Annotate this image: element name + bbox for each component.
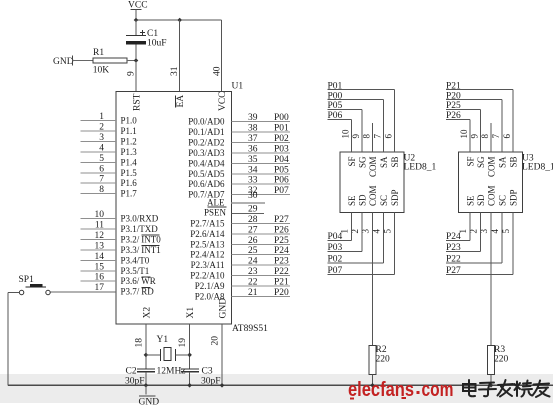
U3 pin 8 number	[480, 134, 490, 139]
svg-text:33: 33	[248, 176, 258, 186]
svg-text:INT0: INT0	[141, 234, 161, 244]
pin 18 number	[134, 338, 144, 348]
svg-text:SD: SD	[476, 194, 486, 206]
pin name RST	[133, 93, 143, 111]
U3 pin 10 number	[459, 129, 469, 139]
switch SP1	[19, 275, 51, 295]
svg-text:WR: WR	[141, 276, 156, 286]
U3 pin name SF	[466, 157, 476, 167]
wire net P20 to U3	[446, 91, 502, 152]
pin 13 P3.3/INT1	[81, 241, 161, 255]
wire net P26 to U3	[446, 111, 470, 152]
resistor R3 220	[488, 345, 509, 385]
svg-text:P3.6/: P3.6/	[121, 276, 140, 286]
svg-text:GND: GND	[219, 298, 229, 319]
junction X1-Y1	[187, 353, 192, 358]
svg-text:10: 10	[95, 210, 105, 220]
pin 22 P2.1/A9 net P21	[195, 277, 290, 291]
svg-text:P1.1: P1.1	[121, 126, 137, 136]
IC U1 AT89S51 body	[116, 82, 268, 335]
wire net P02 to U2	[328, 213, 384, 265]
pin 15 P3.5/T1	[81, 262, 150, 276]
wire net P07 to U2	[328, 213, 395, 277]
svg-text:P2.3/A11: P2.3/A11	[191, 260, 225, 270]
svg-text:14: 14	[95, 252, 105, 262]
svg-text:P0.5/AD5: P0.5/AD5	[188, 169, 225, 179]
svg-text:6: 6	[502, 134, 512, 139]
svg-text:12: 12	[95, 231, 105, 241]
svg-text:19: 19	[178, 338, 188, 348]
resistor R1 10K	[72, 48, 136, 76]
U2 pin name SA	[379, 156, 389, 168]
svg-text:P1.2: P1.2	[121, 136, 137, 146]
svg-text:29: 29	[248, 205, 258, 215]
svg-text:3: 3	[99, 133, 104, 143]
svg-text:P25: P25	[274, 236, 289, 246]
svg-text:AT89S51: AT89S51	[232, 324, 268, 334]
U3 pin name SDP	[509, 189, 519, 206]
wire net P01 to U2	[328, 81, 395, 152]
svg-text:9: 9	[470, 134, 480, 139]
svg-text:RST: RST	[133, 93, 143, 111]
display U3 LED8_1 body	[459, 152, 553, 213]
U3 COM top stub	[490, 123, 492, 152]
U3 pin name SC	[498, 195, 508, 206]
U2 pin 4 number	[372, 229, 382, 234]
pin name GND	[219, 298, 229, 319]
svg-text:SA: SA	[379, 156, 389, 168]
svg-text:COM: COM	[487, 185, 497, 206]
U2 pin 5 number	[383, 229, 393, 234]
svg-text:38: 38	[248, 124, 258, 134]
svg-text:5: 5	[99, 154, 104, 164]
svg-text:P26: P26	[274, 225, 289, 235]
svg-text:X2: X2	[142, 307, 152, 319]
svg-text:P2.6/A14: P2.6/A14	[190, 229, 225, 239]
svg-text:P23: P23	[274, 257, 289, 267]
watermark elecfans.com	[348, 378, 454, 401]
pin 8 P1.7	[81, 185, 138, 199]
pin 33 P0.6/AD6 net P06	[188, 176, 290, 190]
junction VCC-EA	[177, 18, 182, 23]
U2 pin 1 number	[340, 229, 350, 234]
svg-text:P2.2/A10: P2.2/A10	[190, 271, 225, 281]
ground GND bottom	[139, 385, 160, 407]
pin 19 number	[178, 338, 188, 348]
pin 20 number	[211, 336, 221, 346]
pin name X1	[186, 307, 196, 319]
svg-text:7: 7	[373, 134, 383, 139]
svg-text:ALE: ALE	[207, 198, 225, 208]
svg-text:P01: P01	[274, 124, 289, 134]
svg-text:8: 8	[99, 185, 104, 195]
U2 pin name SG	[358, 156, 368, 168]
wire bottom ground rail	[8, 384, 553, 386]
svg-text:26: 26	[248, 236, 258, 246]
U2 pin name COM top	[368, 157, 378, 178]
U3 pin 3 number	[479, 229, 489, 234]
wire U2 COM to resistor	[372, 213, 374, 346]
U2 pin 3 number	[361, 229, 371, 234]
svg-text:P0.1/AD1: P0.1/AD1	[188, 127, 224, 137]
svg-text:P1.4: P1.4	[121, 157, 138, 167]
wire net P06 to U2	[328, 111, 352, 152]
svg-text:21: 21	[248, 288, 258, 298]
pin name X2	[142, 307, 152, 319]
svg-text:6: 6	[99, 164, 104, 174]
svg-text:P3.2/: P3.2/	[121, 234, 140, 244]
svg-text:P02: P02	[274, 134, 289, 144]
pin 24 P2.3/A11 net P23	[191, 257, 290, 271]
pin 26 P2.5/A13 net P25	[190, 236, 290, 250]
svg-text:7: 7	[99, 175, 104, 185]
svg-text:25: 25	[248, 246, 258, 256]
display U2 LED8_1 body	[340, 152, 436, 213]
U3 pin name SB	[509, 157, 519, 168]
U3 pin name COM bottom	[487, 185, 497, 206]
svg-text:4: 4	[99, 143, 104, 153]
U3 pin name SE	[466, 195, 476, 206]
wire net P27 to U3	[446, 213, 513, 277]
U2 pin 7 number	[373, 134, 383, 139]
svg-text:40: 40	[213, 66, 223, 76]
svg-text:P06: P06	[274, 176, 289, 186]
svg-text:U1: U1	[232, 82, 244, 92]
U3 pin name SA	[498, 156, 508, 168]
resistor R2 220	[369, 345, 390, 385]
crystal Y1 12MHz	[146, 335, 190, 377]
svg-text:P3.4/T0: P3.4/T0	[121, 255, 150, 265]
svg-text:P3.3/: P3.3/	[121, 245, 140, 255]
junction R3-rail	[489, 383, 494, 388]
wire net P00 to U2	[328, 91, 384, 152]
U2 pin name COM bottom	[368, 185, 378, 206]
svg-text:35: 35	[248, 155, 258, 165]
svg-text:SE: SE	[466, 195, 476, 206]
U2 pin name SC	[379, 195, 389, 206]
svg-text:P2.5/A13: P2.5/A13	[190, 239, 225, 249]
svg-text:P3.7/: P3.7/	[121, 287, 140, 297]
svg-text:SF: SF	[466, 157, 476, 167]
svg-text:P3.1/TXD: P3.1/TXD	[121, 224, 159, 234]
pin 36 P0.3/AD3 net P03	[188, 144, 290, 158]
pin 39 P0.0/AD0 net P00	[188, 113, 290, 127]
svg-text:P1.0: P1.0	[121, 116, 138, 126]
svg-text:R3: R3	[494, 345, 505, 355]
wire net P04 to U2	[328, 213, 352, 243]
svg-text:11: 11	[95, 221, 104, 231]
capacitor C3 30pF	[181, 367, 221, 387]
svg-text:SD: SD	[358, 194, 368, 206]
svg-text:220: 220	[376, 355, 391, 365]
pin 35 P0.4/AD4 net P04	[188, 155, 290, 169]
U3 pin name SD	[476, 194, 486, 206]
capacitor C1 10uF	[126, 20, 167, 61]
U2 pin 6 number	[384, 134, 394, 139]
U2 pin name SE	[347, 195, 357, 206]
svg-text:16: 16	[95, 273, 105, 283]
svg-text:18: 18	[134, 338, 144, 348]
svg-text:P3.5/T1: P3.5/T1	[121, 266, 150, 276]
U3 pin name COM top	[487, 157, 497, 178]
svg-text:P20: P20	[274, 288, 289, 298]
svg-text:36: 36	[248, 144, 258, 154]
U3 pin 7 number	[491, 134, 501, 139]
svg-text:SG: SG	[476, 156, 486, 168]
svg-text:SE: SE	[347, 195, 357, 206]
svg-text:28: 28	[248, 215, 258, 225]
wire RST to pin 9	[135, 61, 137, 92]
svg-text:8: 8	[480, 134, 490, 139]
U3 pin 1 number	[458, 229, 468, 234]
svg-text:10: 10	[341, 129, 351, 139]
U2 pin name SB	[390, 157, 400, 168]
svg-text:SDP: SDP	[390, 189, 400, 206]
pin 31 number	[170, 66, 180, 76]
svg-text:P04: P04	[274, 155, 289, 165]
U3 pin name SG	[476, 156, 486, 168]
svg-text:VCC: VCC	[218, 91, 228, 111]
svg-text:22: 22	[248, 277, 258, 287]
pin 40 number	[213, 66, 223, 76]
svg-text:COM: COM	[368, 185, 378, 206]
svg-text:15: 15	[95, 262, 105, 272]
svg-text:com: com	[422, 378, 454, 401]
junction C3-rail	[187, 383, 192, 388]
svg-text:2: 2	[99, 123, 104, 133]
pin 23 P2.2/A10 net P22	[190, 267, 290, 281]
svg-text:R2: R2	[376, 345, 387, 355]
U2 pin 8 number	[362, 134, 372, 139]
svg-text:GND: GND	[139, 398, 160, 408]
pin 12 P3.2/INT0	[81, 231, 162, 245]
svg-text:30: 30	[248, 191, 258, 201]
svg-text:13: 13	[95, 241, 105, 251]
junction RST	[134, 58, 139, 63]
svg-text:7: 7	[491, 134, 501, 139]
pin 37 P0.2/AD2 net P02	[188, 134, 290, 148]
pin 6 P1.5	[81, 164, 138, 178]
svg-text:SC: SC	[379, 195, 389, 206]
capacitor C2 30pF	[125, 367, 155, 387]
svg-text:P03: P03	[274, 144, 289, 154]
svg-text:P0.2/AD2: P0.2/AD2	[188, 137, 224, 147]
svg-text:P1.3: P1.3	[121, 147, 138, 157]
svg-text:SB: SB	[509, 157, 519, 168]
U2 pin name SDP	[390, 189, 400, 206]
power VCC	[128, 1, 148, 21]
svg-text:6: 6	[384, 134, 394, 139]
svg-text:SA: SA	[498, 156, 508, 168]
pin 16 P3.6/WR	[81, 273, 156, 287]
svg-text:COM: COM	[487, 157, 497, 178]
svg-text:P07: P07	[274, 186, 289, 196]
svg-text:P1.5: P1.5	[121, 168, 138, 178]
svg-text:P0.0/AD0: P0.0/AD0	[188, 117, 225, 127]
svg-text:P0.6/AD6: P0.6/AD6	[188, 179, 225, 189]
svg-text:P22: P22	[274, 267, 289, 277]
U3 pin 5 number	[501, 229, 511, 234]
svg-text:P3.0/RXD: P3.0/RXD	[121, 214, 159, 224]
pin 25 P2.4/A12 net P24	[190, 246, 290, 260]
svg-text:9: 9	[351, 134, 361, 139]
svg-text:37: 37	[248, 134, 258, 144]
svg-text:EA: EA	[176, 95, 186, 108]
svg-text:P1.7: P1.7	[121, 189, 138, 199]
U3 pin 9 number	[470, 134, 480, 139]
svg-text:SC: SC	[498, 195, 508, 206]
svg-text:P2.4/A12: P2.4/A12	[190, 250, 224, 260]
svg-text:LED8_1: LED8_1	[404, 163, 437, 173]
U2 COM top stub	[372, 123, 374, 152]
svg-text:P00: P00	[274, 113, 289, 123]
svg-text:C1: C1	[147, 29, 158, 39]
junction X2-Y1	[144, 353, 149, 358]
pin 30 ALE	[207, 191, 265, 208]
pin 14 P3.4/T0	[81, 252, 150, 266]
svg-text:23: 23	[248, 267, 258, 277]
svg-text:10K: 10K	[93, 66, 110, 76]
svg-text:10uF: 10uF	[147, 39, 167, 49]
pin 9 number	[126, 71, 136, 76]
wire net P05 to U2	[328, 101, 363, 152]
svg-text:220: 220	[494, 355, 509, 365]
svg-text:P1.6: P1.6	[121, 178, 138, 188]
svg-text:27: 27	[248, 225, 258, 235]
watermark chinese text	[463, 380, 550, 397]
U2 pin name SF	[347, 157, 357, 167]
pin 21 P2.0/A8 net P20	[195, 288, 290, 302]
U2 pin 9 number	[351, 134, 361, 139]
pin name VCC	[218, 91, 228, 111]
svg-text:P0.3/AD3: P0.3/AD3	[188, 148, 225, 158]
junction pin20-rail	[220, 383, 225, 388]
U2 pin name SD	[358, 194, 368, 206]
pin 28 P2.7/A15 net P27	[190, 215, 290, 229]
wire GND pin 20	[221, 324, 223, 385]
wire net P25 to U3	[446, 101, 481, 152]
svg-text:SF: SF	[347, 157, 357, 167]
svg-text:INT1: INT1	[141, 245, 161, 255]
junction C2-rail	[144, 383, 149, 388]
svg-text:SDP: SDP	[509, 189, 519, 206]
U3 pin 4 number	[490, 229, 500, 234]
wire net P24 to U3	[446, 213, 470, 243]
U3 pin 6 number	[502, 134, 512, 139]
svg-text:P05: P05	[274, 165, 289, 175]
pin 10 P3.0/RXD	[81, 210, 159, 224]
pin 4 P1.3	[81, 143, 138, 157]
pin 17 P3.7/RD	[50, 283, 154, 297]
junction R2-rail	[370, 383, 375, 388]
svg-text:10: 10	[459, 129, 469, 139]
svg-text:P21: P21	[274, 277, 289, 287]
pin 38 P0.1/AD1 net P01	[188, 124, 290, 138]
svg-text:C2: C2	[126, 367, 137, 377]
svg-text:COM: COM	[368, 157, 378, 178]
wire net P03 to U2	[328, 213, 363, 254]
svg-text:C3: C3	[202, 367, 213, 377]
pin 32 P0.7/AD7 net P07	[188, 186, 290, 200]
wire net P22 to U3	[446, 213, 502, 265]
pin 34 P0.5/AD5 net P05	[188, 165, 290, 179]
svg-text:1: 1	[99, 112, 104, 122]
svg-text:P27: P27	[274, 215, 289, 225]
pin 29 PSEN	[204, 205, 264, 218]
pin 3 P1.2	[81, 133, 137, 147]
U2 pin 10 number	[341, 129, 351, 139]
pin 27 P2.6/A14 net P26	[190, 225, 290, 239]
wire U3 COM to resistor	[490, 213, 492, 346]
U3 pin 2 number	[469, 229, 479, 234]
svg-text:X1: X1	[186, 307, 196, 319]
svg-text:P24: P24	[274, 246, 289, 256]
svg-text:RD: RD	[141, 287, 154, 297]
svg-text:P0.4/AD4: P0.4/AD4	[188, 158, 225, 168]
svg-text:R1: R1	[93, 48, 104, 58]
wire VCC rail	[136, 19, 222, 21]
svg-text:SB: SB	[390, 157, 400, 168]
junction VCC-C1	[134, 18, 139, 23]
svg-text:39: 39	[248, 113, 258, 123]
svg-text:SP1: SP1	[19, 275, 35, 285]
wire net P23 to U3	[446, 213, 481, 254]
U2 pin 2 number	[350, 229, 360, 234]
pin 5 P1.4	[81, 154, 138, 168]
wire net P21 to U3	[446, 81, 513, 152]
pin 1 P1.0	[81, 112, 138, 126]
wire VCC to pin 40	[221, 20, 223, 92]
svg-text:P2.1/A9: P2.1/A9	[195, 281, 225, 291]
svg-text:GND: GND	[53, 57, 74, 67]
wire X1 pin 19	[189, 324, 191, 369]
svg-text:17: 17	[95, 283, 105, 293]
svg-text:8: 8	[362, 134, 372, 139]
ground GND (R1)	[53, 56, 74, 68]
svg-text:31: 31	[170, 66, 180, 76]
pin 7 P1.6	[81, 175, 138, 189]
wire SP1 left to bottom rail	[8, 293, 19, 386]
svg-text:PSEN: PSEN	[204, 208, 227, 218]
pin 11 P3.1/TXD	[81, 221, 159, 235]
svg-text:P2.7/A15: P2.7/A15	[190, 218, 225, 228]
svg-text:24: 24	[248, 257, 258, 267]
pin name EA (overline)	[175, 95, 186, 108]
svg-text:20: 20	[211, 336, 221, 346]
svg-text:34: 34	[248, 165, 258, 175]
svg-text:SG: SG	[358, 156, 368, 168]
wire EA branch	[179, 20, 181, 92]
wire X2 pin 18	[145, 324, 147, 369]
pin 2 P1.1	[81, 123, 137, 137]
svg-text:9: 9	[126, 71, 136, 76]
watermark band	[0, 374, 553, 403]
svg-text:Y1: Y1	[157, 335, 169, 345]
svg-text:LED8_1: LED8_1	[522, 163, 553, 173]
